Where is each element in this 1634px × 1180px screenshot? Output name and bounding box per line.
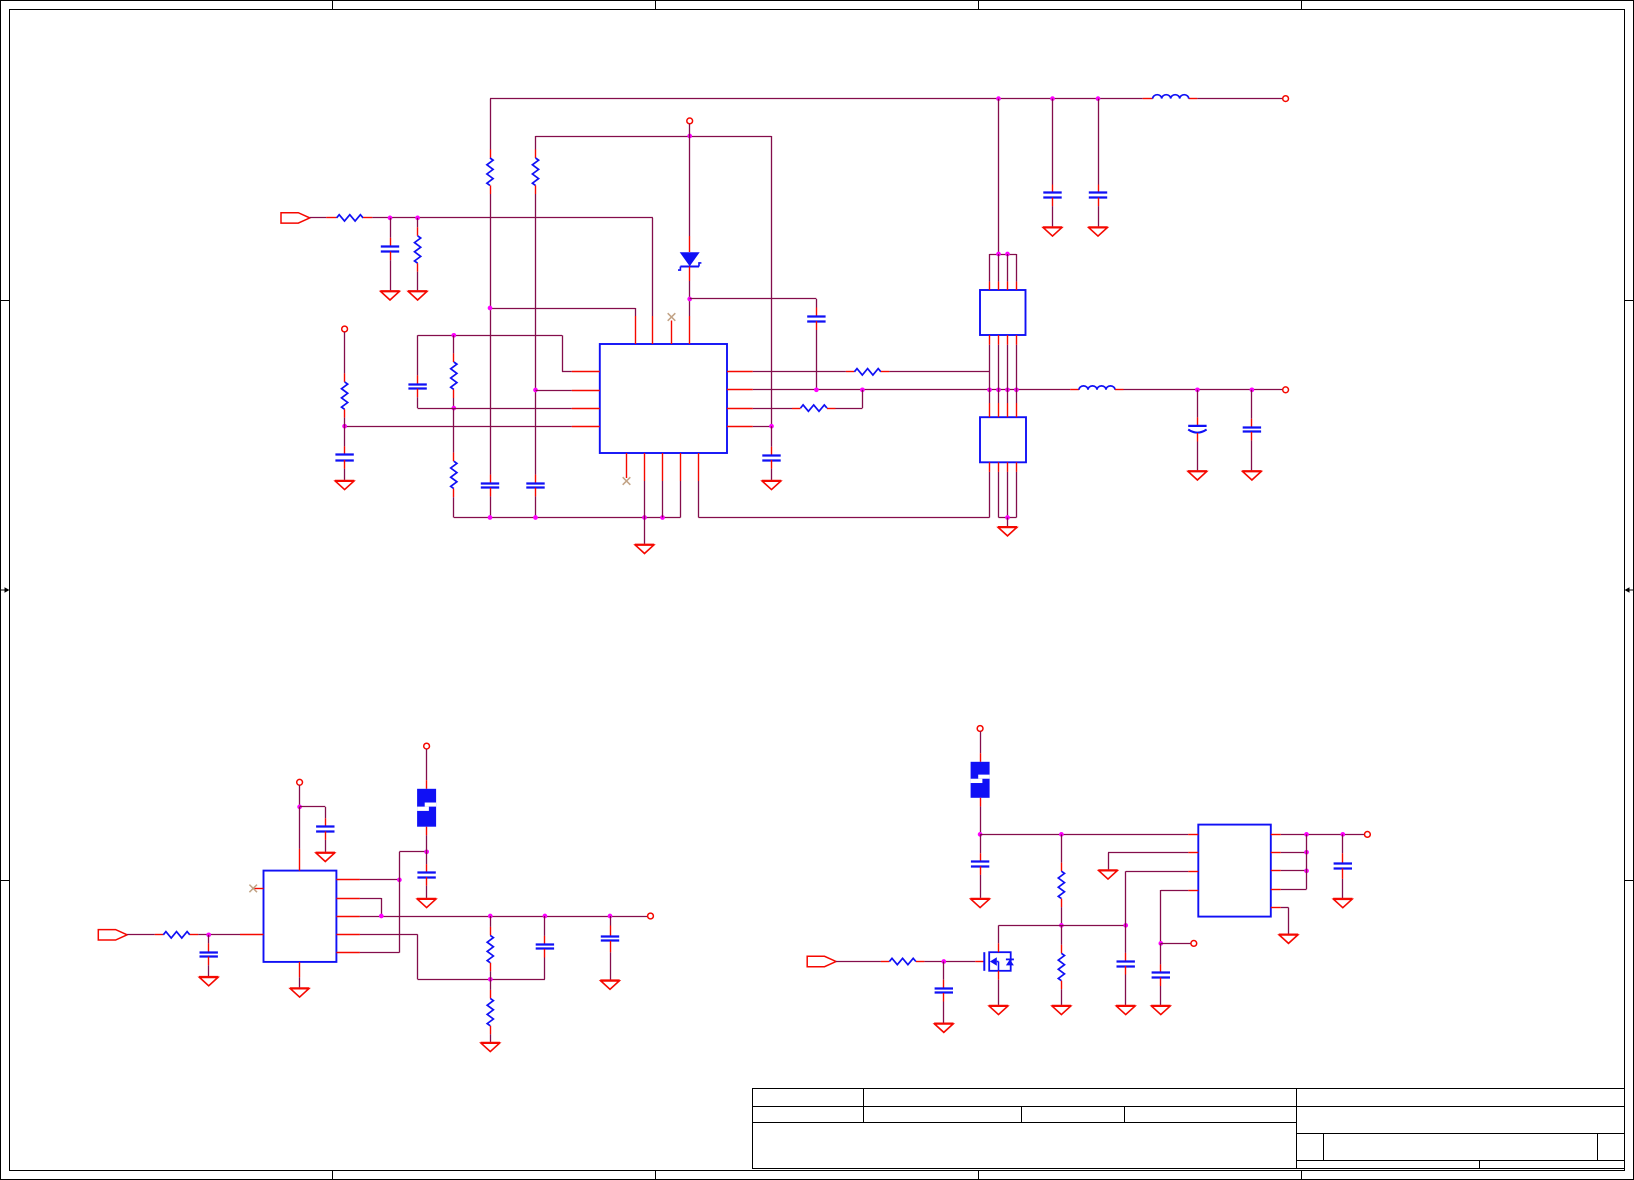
pin C21 top [1342,853,1344,864]
port P6 [648,913,654,919]
pin R8 left [846,371,855,373]
resistor R9 [801,405,827,411]
wire output net [753,389,1070,391]
wire bottom link [418,979,545,981]
title block right row line 2 [1297,1133,1625,1135]
title block row line 1 [753,1106,1625,1108]
pin U2 bottom3 [1007,335,1009,345]
wire C1 to gnd [390,260,392,290]
pin C7 top [1098,185,1100,194]
regulator IC U5 [1198,825,1271,917]
wire R4 top [417,218,419,227]
wire U3 bottom3 [1007,472,1009,518]
wire C7 top [1098,99,1100,185]
junction F1 net [424,849,429,854]
pin U5 left1 [1188,834,1198,836]
wire R15 to gnd [1061,989,1063,1005]
pin U1 left4 [572,426,600,428]
wire C16 to gnd [426,886,428,898]
pin U4 right5 [336,952,360,954]
capacitor C11 [762,456,780,461]
pin U1 right4 [727,426,753,428]
pin C19 bottom [1125,966,1127,975]
wire C4 to gnd bus [490,496,492,517]
wire net136 to D1 [689,136,691,236]
filter block U3 [980,417,1026,462]
capacitor C2 [408,385,426,389]
pin U3 bottom4 [1016,462,1018,472]
junction U2 bus 2 [1005,252,1010,257]
junction rail-feed [996,96,1001,101]
junction input-C1 [388,216,393,221]
junction drain-pin3 [1123,923,1128,928]
ground U3 [998,527,1017,536]
pin C4 top [490,475,492,484]
border zone tick right [1625,300,1634,302]
capacitor C21 [1334,864,1352,869]
junction left4-C20 [1158,941,1163,946]
ground R12 [481,1043,500,1052]
junction right4-C11 [769,424,774,429]
wire R12 to gnd [490,1034,492,1042]
pin C18 top [980,853,982,862]
wire U5 left3 [1126,871,1189,873]
wire left4 drop [1160,890,1162,943]
wire to U1 left1 [562,371,572,373]
wire top rail right [1197,98,1283,100]
pin Q1 drain [998,943,1000,952]
junction fb3 [1304,869,1309,874]
wire Q1 drain up [998,925,1000,943]
ground C16 [417,899,436,908]
pin Q1 gate [975,961,984,963]
junction D1-C3 net [687,297,692,302]
junction gate-C17 [941,959,946,964]
wire C19 to gnd [1125,975,1127,1005]
zener diode D1 [678,252,701,270]
pin R6 bottom [453,489,455,498]
pin R7 bottom [344,409,346,417]
pin U1 right3 [727,408,753,410]
pin U4 left2 [240,934,264,936]
junction vout-v [1304,832,1309,837]
resistor R13 [889,958,915,964]
pin U5 left4 [1188,890,1198,892]
wire right5 vertical [399,852,401,953]
resistor R3 [337,215,363,221]
pin C16 top [426,864,428,873]
ground C6 [1043,227,1062,236]
wire R1 to C4 [490,194,492,475]
regulator IC U4 [264,871,337,962]
wire C6 to gnd [1052,206,1054,226]
junction net136-port [687,134,692,139]
pin C6 bottom [1052,198,1054,207]
border zone tick top [1301,0,1303,10]
border zone tick top [332,0,334,10]
pin R3 left [326,217,336,219]
capacitor C7 [1089,193,1107,198]
wire U2-U3 vertical 2 [998,345,1000,403]
wire C2 top [417,335,419,375]
pin F1 bottom [426,827,428,836]
wire U3 gnd bus [999,517,1017,519]
pin C2 top [417,375,419,384]
ground C7 [1088,227,1107,236]
border zone tick top [655,0,657,10]
capacitor C1 [381,247,399,252]
junction U3 gnd [1005,515,1010,520]
ground C18 [970,899,989,908]
wire C7 to gnd [1098,206,1100,226]
wire U5 left4 [1161,890,1189,892]
wire ground bus [454,517,681,519]
wire C3 top drop [816,299,818,308]
ground C20 [1151,1006,1170,1015]
wire Q1 source to gnd [998,980,1000,1005]
wire U4 right4 [360,934,418,936]
wire R11 to link [490,971,492,979]
wire right4 drop [417,934,419,979]
border zone tick bottom [1301,1171,1303,1180]
junction port-R7 net [342,424,347,429]
wire R12 top [490,979,492,990]
wire U4 right1 [360,879,400,881]
pin C8 bottom [344,460,346,469]
wire right2 drop [381,898,383,916]
port P3 [342,326,348,332]
wire right4 [753,426,772,428]
junction out-C9 [1195,387,1200,392]
capacitor C16 [417,873,435,878]
ground C1 [380,291,399,300]
pin U1 bottom3 [662,453,664,481]
pin U1 right1 [727,371,753,373]
pin R1 bottom [490,185,492,194]
pin U1 left1 [572,371,600,373]
junction out-v4 [1014,387,1019,392]
port tag IN2 [98,930,127,940]
capacitor C19 [1117,962,1135,967]
pin R13 left [881,961,890,963]
pin C1 top [390,238,392,247]
resistor R1 [487,158,493,185]
pin R14 bottom [1061,899,1063,908]
junction bus-C5 [533,515,538,520]
pin C17 top [943,980,945,989]
pin R3 right [363,217,372,219]
pin R15 top [1061,945,1063,954]
pin C18 bottom [980,866,982,875]
border zone tick left [0,880,10,882]
border zone tick bottom [332,1171,334,1180]
wire C11 top [771,426,773,447]
wire IN1 to R3 [310,217,327,219]
ground C11 [762,481,781,490]
pin L1 left [1143,98,1153,100]
pin C19 top [1125,953,1127,962]
border zone tick bottom [655,1171,657,1180]
wire U2 top pin4 [1016,254,1018,282]
pin C3 top [816,308,818,317]
main IC U1 [600,344,727,453]
wire IN3 to R13 [836,961,881,963]
wire U3 bottom2 [998,472,1000,518]
wire net426 [345,426,572,428]
pin U3 top3 [1007,403,1009,417]
junction fb-C14 [543,914,548,919]
ground U5 right5 [1279,935,1298,944]
pin U1 bottom5 [698,453,700,481]
pin C13 top [325,818,327,827]
pin C16 bottom [426,877,428,886]
pin U1 left2 [572,390,600,392]
ground R15 [1052,1006,1071,1015]
junction fb2 [1304,850,1309,855]
wire R7 to net426 [344,418,346,427]
pin U1 top2 [652,316,654,344]
resistor R12 [487,998,493,1025]
wire R8 to U2 [889,371,989,373]
pin U2 top1 [989,282,991,290]
wire R14 top [1061,834,1063,862]
pin U3 bottom3 [1007,462,1009,472]
wire VIN rail [980,834,1188,836]
no-connect U4 left1 [249,885,257,893]
title block right cell divider 3 [1479,1161,1481,1169]
filter block U2 [980,290,1026,335]
pin U5 right3 [1271,870,1281,872]
wire input drop to U1 pin2 [652,218,654,316]
junction rail-C7 [1096,96,1101,101]
junction P5-C13 [297,805,302,810]
wire C11 to gnd [771,469,773,480]
fuse F1 [417,789,436,827]
wire VOUT net [1281,834,1365,836]
pin U3 top2 [998,403,1000,417]
wire right feedback vertical [1306,834,1308,889]
junction out-v2 [996,387,1001,392]
capacitor C14 [536,945,554,949]
wire R6 to gnd bus [453,497,455,517]
wire C3 to output net [816,330,818,390]
pin U4 right2 [336,898,360,900]
pin D1 cathode [689,267,691,282]
wire C8 top [344,426,346,446]
junction vout-C21 [1340,832,1345,837]
pin R5 top [453,353,455,362]
border mid arrow right [1625,587,1634,592]
pin C11 bottom [771,460,773,469]
resistor R15 [1058,953,1064,980]
wire U2 top pin3 [1007,254,1009,282]
junction fb-right2 [379,914,384,919]
pin C17 bottom [943,993,945,1002]
capacitor C5 [526,484,544,488]
pin C12 top [208,943,210,952]
port P9 [1191,941,1197,947]
pin F1 top [426,780,428,789]
wire U3 pin1 drop [989,472,991,518]
wire U3 bottom4 [1016,472,1018,518]
capacitor C13 [316,827,334,832]
pin R6 top [453,453,455,462]
wire R6 top [453,408,455,453]
wire C17 to gnd [943,1002,945,1023]
pin R10 left [155,934,164,936]
junction bus-pin3 [660,515,665,520]
border zone tick right [1625,880,1634,882]
pin C20 bottom [1160,978,1162,987]
resistor R4 [415,236,421,263]
resistor R6 [451,461,457,488]
pin U3 bottom1 [989,462,991,472]
ground C10 [1242,471,1261,480]
junction input-R4 [415,216,420,221]
wire right5 top link [399,851,426,853]
wire U3 gnd drop [1007,518,1009,527]
pin F2 top [980,753,982,762]
pin L1 right [1189,98,1198,100]
pin U3 bottom2 [998,462,1000,472]
pin C10 top [1251,419,1253,428]
pin U5 right4 [1271,889,1281,891]
wire R13 to gate [924,961,975,963]
inductor L1 [1153,95,1189,99]
pin R15 bottom [1061,981,1063,990]
pin U2 bottom2 [998,335,1000,345]
pin U5 right5 [1271,907,1281,909]
wire 308 drop [635,308,637,316]
border zone tick top [978,0,980,10]
ground C8 [335,481,354,490]
junction bus-pin2 [642,515,647,520]
wire U4 right2 [360,898,381,900]
pin U5 left2 [1188,852,1198,854]
wire C10 top [1251,390,1253,419]
wire C12 top [208,935,210,944]
wire R5 top [453,335,455,353]
wire C18 top [980,834,982,853]
ground U4 [290,988,309,997]
no-connect U1 top3 [668,313,676,321]
title block left cell divider [863,1089,865,1123]
title block left cell divider 2 [1021,1107,1023,1123]
wire C21 top [1342,834,1344,853]
pin R11 bottom [490,963,492,972]
junction fb-C15 [608,914,613,919]
resistor R11 [487,935,493,962]
wire net308 [490,308,636,310]
title block right row line 3 [1297,1160,1625,1162]
wire to port P9 [1161,943,1191,945]
junction U2 bus 1 [996,252,1001,257]
pin C6 top [1052,185,1054,194]
port P10 output [1365,832,1371,838]
wire C19 top [1125,925,1127,953]
wire P5 down [299,785,301,807]
wire rail drop to R1 [490,99,492,150]
wire R5 to net408 [453,398,455,408]
pin U2 top3 [1007,282,1009,290]
pin U5 right1 [1271,834,1281,836]
pin C9 top [1197,417,1199,426]
wire R15 top [1061,925,1063,944]
wire R11 top [490,916,492,927]
port P4 output [1283,387,1289,393]
capacitor C9 [1188,426,1206,433]
ground R4 [408,291,427,300]
wire IN2 to R10 [127,934,155,936]
pin U1 right2 [727,389,753,391]
capacitor C18 [971,862,989,867]
resistor R5 [451,362,457,389]
wire net136 drop right [771,136,773,426]
ground C15 [600,981,619,990]
wire top rail [490,98,1143,100]
resistor R7 [342,382,348,409]
pin R5 bottom [453,389,455,398]
wire U5 right5 [1281,907,1289,909]
fuse F2 [971,762,990,798]
port P2 zener [687,118,693,124]
title block divider center [1296,1089,1298,1169]
wire C14 top [544,916,546,936]
wire output to port [1124,389,1283,391]
junction out-C3 [814,387,819,392]
wire P5 to U4 top [299,807,301,849]
pin U2 bottom1 [989,335,991,345]
pin U2 top2 [998,282,1000,290]
wire U5 left2 [1108,852,1188,854]
wire net136 [536,136,772,138]
ground U5 left2 [1098,870,1117,879]
pin C13 bottom [325,831,327,840]
wire drain net [999,925,1126,927]
pin R14 top [1061,863,1063,872]
wire right1 to R8 [753,371,846,373]
pin R13 right [916,961,925,963]
pin D1 anode [689,236,691,252]
pin U1 bottom2 [644,453,646,481]
wire zener node to C3 [690,298,817,300]
wire U2 top pin1 [989,254,991,282]
pin R10 right [190,934,199,936]
capacitor C3 [807,317,825,322]
wire R14 to mid [1061,907,1063,925]
wire C21 to gnd [1342,879,1344,898]
border zone tick left [0,300,10,302]
wire C13 link [300,806,326,808]
pin U4 right3 [336,916,360,918]
wire R4 to gnd [417,272,419,291]
wire R9 right [836,408,863,410]
wire U1 bottom5 [698,481,700,518]
wire left3 drop [1125,871,1127,925]
port tag IN1 [281,213,310,223]
capacitor C6 [1043,193,1061,198]
wire C13 top [325,807,327,818]
pin C7 bottom [1098,198,1100,207]
port P8 [977,726,983,732]
pin C1 bottom [390,252,392,261]
wire net335 [418,335,562,337]
wire C1 top [390,218,392,238]
capacitor C12 [200,953,218,957]
pin U1 bottom1 [626,453,628,478]
pin U5 left3 [1188,871,1198,873]
pin R9 left [792,408,801,410]
